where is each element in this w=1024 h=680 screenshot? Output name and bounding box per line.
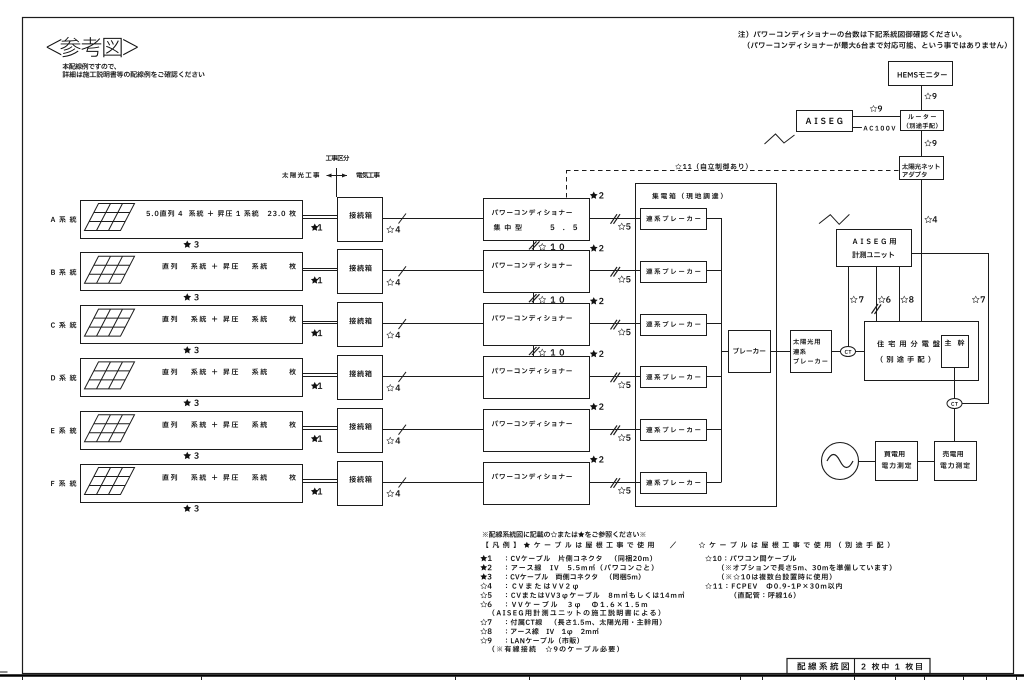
連系ブレーカー text A — [646, 215, 700, 221]
legend sub text — [492, 609, 660, 616]
住宅用分電盤 box — [865, 322, 979, 381]
label ☆4 row C — [386, 331, 400, 338]
power conditioner 1 — [484, 199, 590, 241]
wire 接続箱-PC E — [382, 429, 483, 431]
legend ☆5 text — [506, 592, 684, 600]
slash ☆4 row C — [399, 319, 407, 329]
double slash ☆5 row B — [611, 267, 618, 277]
label ☆7 right — [972, 296, 985, 303]
wire 接続箱-PC A — [382, 218, 483, 220]
太陽光用 text — [793, 339, 820, 345]
CT2 text — [951, 402, 958, 406]
label C系統 — [51, 322, 76, 329]
legend ★3 text — [506, 573, 641, 580]
legend header1 — [483, 531, 646, 538]
subtitle note line2 — [63, 71, 205, 77]
solar array box C — [81, 306, 303, 344]
label ☆4 row D — [386, 384, 400, 391]
AISEG text — [806, 118, 843, 124]
集電箱 label — [652, 193, 723, 199]
主幹 text — [945, 340, 965, 346]
sine wave — [827, 455, 853, 468]
PC text 4 — [492, 368, 572, 374]
AC100V stub — [852, 127, 862, 129]
legend ★2 text — [506, 564, 654, 571]
太陽光ネットアダプタ box — [900, 157, 944, 180]
PC text 1 — [492, 209, 572, 215]
接続箱 text D — [349, 370, 371, 377]
legend ☆8 text — [506, 628, 599, 636]
連系ブレーカー box A — [641, 209, 707, 230]
wire breaker-bus B — [706, 270, 722, 272]
PC text 3 — [492, 315, 572, 321]
DC wire pair F — [302, 479, 337, 481]
PC text 2 — [492, 262, 572, 268]
住宅用分電盤 text — [877, 340, 940, 347]
連系ブレーカー text B — [646, 268, 700, 274]
label ☆4 row F — [386, 490, 400, 497]
PC1 集中型 — [494, 224, 522, 231]
wire 主幹-CT2 — [954, 368, 956, 399]
legend right — [705, 555, 796, 562]
label ☆4 comm — [924, 216, 937, 223]
wire PC-連系ブレーカー E — [589, 429, 640, 431]
solar array box E — [81, 412, 303, 450]
wire HEMS-router — [921, 86, 923, 111]
label ★1 row C — [311, 329, 322, 336]
連系ブレーカー box B — [641, 262, 707, 283]
bus wire in 集電箱 — [721, 218, 723, 482]
AISEG用 text — [853, 238, 896, 244]
legend header2a — [486, 541, 653, 548]
dashed wire PC1 top — [566, 171, 568, 198]
label ☆5 row C — [618, 328, 631, 335]
double slash ☆5 row F — [611, 478, 618, 488]
sheet edge thick line — [0, 674, 1024, 677]
売電用電力測定 box — [935, 442, 977, 481]
legend ☆4 — [480, 583, 491, 589]
電力測定 text (買) — [882, 462, 911, 468]
AISEG用計測ユニット box — [837, 230, 912, 267]
連系ブレーカー box C — [641, 315, 707, 336]
label 電気工事 — [356, 172, 379, 178]
label ★2 row E — [590, 403, 604, 410]
接続箱 text F — [349, 476, 371, 483]
label ☆5 row B — [618, 275, 631, 282]
label ☆10 3 — [538, 349, 564, 356]
接続箱 text A — [349, 212, 371, 219]
legend right — [722, 564, 892, 571]
wire 接続箱-PC C — [382, 323, 483, 325]
slash ☆4 row E — [399, 425, 407, 435]
label 工事区分 — [326, 155, 350, 161]
wire PC-連系ブレーカー B — [589, 270, 640, 272]
wire AISEG-router — [852, 116, 900, 118]
top note line1 — [738, 31, 961, 38]
title 参考図 — [47, 37, 138, 57]
junction box 接続箱 A — [338, 198, 383, 242]
array A spec text — [146, 210, 295, 217]
solar panel symbol E — [85, 415, 135, 442]
double slash ☆5 row E — [611, 425, 618, 435]
ルーター box — [901, 111, 944, 131]
label ☆9 mid — [924, 139, 936, 146]
CT2 — [947, 399, 962, 409]
wire PC-連系ブレーカー C — [589, 323, 640, 325]
label ☆4 row A — [386, 226, 400, 233]
wire bus-ブレーカー — [722, 351, 729, 353]
接続箱 text C — [349, 317, 371, 324]
連系ブレーカー box F — [641, 473, 707, 494]
label ★3 row E — [183, 452, 198, 459]
power conditioner 4 — [484, 357, 590, 399]
wire 接続箱-PC B — [382, 270, 483, 272]
label ★3 row B — [183, 293, 198, 300]
AC100V text — [863, 126, 895, 131]
アダプタ text — [903, 171, 927, 177]
power conditioner 2 — [484, 251, 590, 293]
next sheet tick marks — [22, 677, 24, 680]
array F spec text — [162, 474, 295, 481]
連系ブレーカー text D — [646, 374, 700, 380]
HEMSモニター box — [889, 62, 953, 86]
PC text 5 — [492, 420, 572, 426]
legend ☆8 — [480, 628, 491, 634]
HEMSモニター text — [898, 72, 947, 78]
集電箱 enclosure — [636, 184, 777, 507]
legend sub text — [492, 646, 619, 653]
legend ★1 — [480, 555, 491, 562]
label ☆4 row B — [386, 278, 400, 285]
title block — [787, 659, 930, 674]
wire PC-連系ブレーカー D — [589, 376, 640, 378]
legend ★2 — [480, 564, 491, 571]
junction box 接続箱 C — [338, 303, 383, 347]
wire breaker-bus A — [706, 218, 722, 220]
array C spec text — [162, 316, 295, 323]
太陽光ネット text — [902, 163, 940, 169]
legend slash — [670, 542, 676, 549]
double slash ☆5 row D — [611, 373, 618, 383]
power conditioner 3 — [484, 304, 590, 346]
label F系統 — [51, 480, 76, 487]
subtitle note line1 — [63, 63, 117, 69]
工事区分 divider line — [336, 168, 338, 197]
wireless zigzag 1 — [765, 134, 795, 144]
label ★1 row D — [311, 382, 322, 389]
legend ☆9 text — [506, 637, 579, 644]
wire PC-連系ブレーカー F — [589, 482, 640, 484]
double slash ☆10 3 — [529, 347, 537, 355]
AC grid source circle — [822, 443, 859, 480]
wire breaker-bus C — [706, 323, 722, 325]
接続箱 text B — [349, 265, 371, 272]
連系ブレーカー text E — [646, 427, 700, 433]
legend ☆7 — [480, 619, 491, 625]
wire PC-連系ブレーカー A — [589, 218, 640, 220]
label ★1 row A — [311, 223, 322, 230]
太陽光用連系ブレーカー box — [791, 331, 832, 373]
wire router-adapter — [921, 131, 923, 157]
連系ブレーカー box E — [641, 420, 707, 441]
wire CT2-売電用 — [954, 409, 956, 442]
label ★1 row B — [311, 276, 322, 283]
legend ☆6 text — [506, 601, 647, 609]
wire 買電-売電 — [917, 461, 935, 463]
legend header2b — [699, 541, 890, 548]
label B系統 — [51, 269, 76, 276]
ブレーカー text2 — [794, 358, 828, 364]
label ☆8 — [900, 296, 913, 303]
wire adapter-分電盤 — [921, 179, 923, 321]
double slash ☆5 row A — [611, 214, 618, 224]
label ★2 row F — [590, 455, 604, 462]
legend ☆7 text — [506, 619, 662, 626]
ルーター text — [908, 114, 936, 119]
連系ブレーカー text C — [646, 321, 700, 327]
ルーター 別途手配 text — [907, 123, 938, 129]
label ☆10 2 — [538, 296, 564, 303]
slash ☆4 row B — [399, 266, 407, 276]
label ☆5 row F — [618, 487, 631, 494]
wire ☆7 loop to CT2 — [911, 254, 989, 404]
title block 配線系統図 — [797, 662, 849, 670]
label 太陽光工事 — [282, 172, 319, 178]
PC text 6 — [492, 473, 572, 479]
array D spec text — [162, 368, 295, 375]
slash ☆4 row F — [399, 478, 407, 488]
array E spec text — [162, 421, 295, 428]
power conditioner 5 — [484, 410, 590, 452]
solar array box D — [81, 359, 303, 397]
別途手配 text — [881, 356, 931, 363]
solar panel symbol D — [85, 362, 135, 389]
電力測定 text (売) — [940, 462, 969, 468]
double slash ☆10 2 — [529, 294, 537, 302]
PC1 5.5kW — [550, 225, 577, 231]
legend ☆4 text — [506, 583, 578, 590]
wire breaker-bus E — [706, 429, 722, 431]
label ★2 row B — [590, 244, 604, 251]
wire ☆6 — [876, 267, 878, 322]
legend right — [734, 592, 795, 599]
slash ☆4 row D — [399, 372, 407, 382]
CT1 — [841, 347, 856, 357]
legend right — [705, 583, 842, 589]
label ☆11 — [675, 163, 747, 169]
工事区分 arrows — [327, 175, 348, 177]
label ★3 row F — [183, 504, 198, 511]
label D系統 — [51, 374, 76, 381]
solar array box A — [81, 201, 303, 239]
legend ☆5 — [480, 592, 491, 598]
label ★2 row D — [590, 350, 604, 357]
wire ☆10 link PC2-PC3 — [533, 293, 535, 304]
legend ★1 text — [506, 555, 652, 562]
label ☆9 top — [924, 92, 936, 99]
array B spec text — [162, 263, 295, 270]
wire CT1-分電盤 — [856, 351, 865, 353]
label ★3 row D — [183, 399, 198, 406]
売電用 text — [943, 451, 963, 457]
label ★1 row E — [311, 435, 322, 442]
連系ブレーカー box D — [641, 367, 707, 388]
label ☆6 — [878, 296, 891, 303]
接続箱 text E — [349, 423, 371, 430]
junction box 接続箱 E — [338, 409, 383, 453]
wireless zigzag 2 — [819, 214, 849, 224]
label ☆7 left — [850, 296, 864, 303]
wire to CT1 — [832, 351, 841, 353]
DC wire pair B — [302, 268, 337, 270]
double slash ☆6 — [872, 304, 879, 314]
wire breaker-bus F — [706, 482, 722, 484]
solar array box F — [81, 465, 303, 503]
label ★2 row A — [590, 191, 604, 198]
wire breaker-bus D — [706, 376, 722, 378]
CT1 text — [845, 350, 852, 354]
連系 text — [793, 349, 806, 355]
label ☆5 row A — [618, 223, 631, 230]
label ☆9 AISEG — [870, 105, 882, 112]
legend ★3 — [480, 573, 491, 580]
wire ☆7 CT1 — [848, 267, 850, 347]
legend ☆6 — [480, 601, 491, 607]
double slash ☆5 row C — [611, 320, 618, 330]
legend right — [722, 573, 832, 580]
計測ユニット text — [852, 251, 894, 258]
junction box 接続箱 B — [338, 250, 383, 294]
wire ☆10 link PC1-PC2 — [533, 240, 535, 251]
wire ☆10 link PC3-PC4 — [533, 346, 535, 357]
junction box 接続箱 F — [338, 462, 383, 506]
top note line2 — [748, 42, 1007, 49]
label E系統 — [51, 427, 76, 434]
DC wire pair E — [302, 426, 337, 428]
dashed wire ☆11 — [566, 170, 899, 172]
label ☆5 row D — [618, 381, 631, 388]
label ☆10 1 — [538, 243, 564, 250]
wire ブレーカー-太陽光用連系ブレーカー — [770, 351, 790, 353]
label ☆4 row E — [386, 437, 400, 444]
主幹 box — [942, 336, 969, 368]
DC wire pair C — [302, 321, 337, 323]
label ★3 row A — [183, 240, 198, 247]
junction box 接続箱 D — [338, 356, 383, 400]
label ☆5 row E — [618, 434, 631, 441]
買電用 text — [884, 451, 904, 457]
power conditioner 6 — [484, 463, 590, 505]
double slash ☆10 1 — [529, 241, 537, 249]
title block sheet no — [861, 663, 922, 670]
label ★1 row F — [311, 487, 322, 494]
slash ☆4 row A — [399, 214, 407, 224]
wire ☆8 — [899, 267, 901, 322]
label A系統 — [51, 216, 77, 223]
label ★2 row C — [590, 297, 604, 304]
ブレーカー box — [729, 331, 771, 373]
legend ☆9 — [480, 637, 491, 643]
DC wire pair A — [302, 215, 337, 217]
solar panel symbol C — [85, 309, 135, 336]
買電用電力測定 box — [876, 442, 918, 481]
solar panel symbol A — [85, 204, 135, 231]
label ★3 row C — [183, 346, 198, 353]
wire 接続箱-PC D — [382, 376, 483, 378]
ブレーカー text — [733, 348, 765, 354]
solar panel symbol F — [85, 468, 135, 495]
DC wire pair D — [302, 373, 337, 375]
AISEG box — [797, 111, 853, 132]
solar panel symbol B — [85, 256, 135, 283]
solar array box B — [81, 253, 303, 291]
wire source-買電用 — [859, 461, 876, 463]
wire 接続箱-PC F — [382, 482, 483, 484]
連系ブレーカー text F — [646, 479, 700, 485]
